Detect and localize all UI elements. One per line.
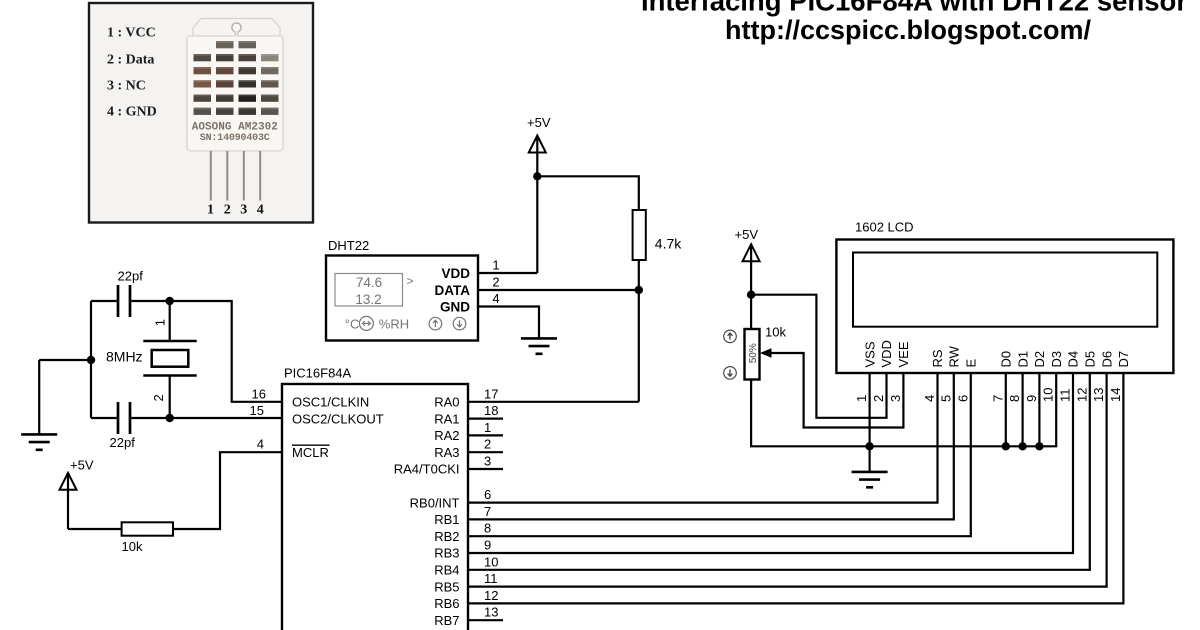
- svg-text:OSC2/CLKOUT: OSC2/CLKOUT: [292, 411, 384, 426]
- svg-text:1 : VCC: 1 : VCC: [107, 26, 156, 41]
- svg-text:22pf: 22pf: [110, 435, 136, 450]
- svg-text:9: 9: [484, 538, 491, 553]
- svg-text:RB4: RB4: [434, 563, 459, 578]
- svg-text:+5V: +5V: [70, 458, 94, 473]
- wire RA3 stub: [468, 451, 503, 453]
- DHT22 down arrow icon: [453, 317, 466, 330]
- svg-text:DHT22: DHT22: [328, 238, 369, 253]
- wire RB3 to LCD D4: [468, 373, 1073, 553]
- capacitor C2 22pf (bottom): [110, 402, 136, 450]
- wire +5V branch to pull-up resistor: [537, 176, 639, 210]
- wire RA0 pin 17 to DATA column: [468, 401, 639, 403]
- wire DATA pin 2: [478, 289, 639, 291]
- svg-text:12: 12: [1074, 388, 1089, 402]
- svg-text:1: 1: [152, 319, 167, 326]
- svg-text:2: 2: [871, 395, 886, 402]
- svg-text:RB0/INT: RB0/INT: [410, 495, 460, 510]
- svg-text:°C: °C: [345, 316, 360, 331]
- wire LCD D2 column to ground rail: [1038, 373, 1040, 446]
- svg-text:RB1: RB1: [434, 512, 459, 527]
- resistor R1 10k (MCLR pull-up): [122, 522, 174, 554]
- potentiometer RV1 10k: [745, 325, 787, 380]
- DHT22 display window: [335, 274, 414, 307]
- wire RB7 stub: [468, 619, 503, 621]
- node junction D2: [1035, 442, 1043, 450]
- +5V supply (DHT22 VDD): [527, 115, 551, 273]
- svg-text:22pf: 22pf: [118, 269, 144, 284]
- svg-text:2: 2: [484, 437, 491, 452]
- photo pin list labels: [107, 26, 157, 120]
- wire RB2 to LCD E: [468, 373, 971, 536]
- svg-text:4 : GND: 4 : GND: [107, 105, 157, 120]
- wire LCD D0 column to ground rail: [1005, 373, 1007, 446]
- svg-text:10: 10: [484, 554, 498, 569]
- svg-text:7: 7: [484, 504, 491, 519]
- svg-text:RB6: RB6: [434, 596, 459, 611]
- svg-text:D1: D1: [1015, 351, 1030, 368]
- node junction D1: [1018, 442, 1026, 450]
- potentiometer up arrow icon: [724, 330, 737, 343]
- svg-text:1602 LCD: 1602 LCD: [855, 220, 914, 235]
- svg-text:2: 2: [224, 203, 231, 218]
- svg-text:1: 1: [207, 203, 214, 218]
- node C junction (bottom cap / crystal): [166, 414, 174, 422]
- svg-text:D7: D7: [1116, 351, 1131, 368]
- DHT22 sensor photo frame: [89, 3, 313, 223]
- svg-text:8MHz: 8MHz: [106, 349, 143, 365]
- svg-text:6: 6: [484, 487, 491, 502]
- svg-text:RA1: RA1: [434, 411, 459, 426]
- wire 4.7k to DATA node and down to RA0: [638, 260, 640, 402]
- svg-text:11: 11: [484, 571, 498, 586]
- svg-text:D4: D4: [1066, 351, 1081, 368]
- svg-text:VDD: VDD: [441, 266, 470, 281]
- svg-text:16: 16: [252, 386, 266, 401]
- svg-text:10: 10: [1041, 388, 1056, 402]
- node junction D0: [1002, 442, 1010, 450]
- svg-text:VEE: VEE: [896, 341, 911, 367]
- node D junction (+5V / 4.7k): [533, 172, 541, 180]
- svg-text:2: 2: [492, 275, 499, 290]
- svg-text:4: 4: [922, 395, 937, 402]
- DHT22 sensor box U2: [326, 238, 478, 341]
- svg-text:RB7: RB7: [434, 613, 459, 628]
- wire RA4 stub: [468, 468, 503, 470]
- svg-text:4: 4: [257, 203, 264, 218]
- svg-text:http://ccspicc.blogspot.com/: http://ccspicc.blogspot.com/: [725, 15, 1092, 45]
- svg-text:MCLR: MCLR: [292, 445, 329, 460]
- svg-text:DATA: DATA: [435, 283, 471, 298]
- pin name MCLR with overbar: [292, 445, 330, 460]
- svg-text:GND: GND: [440, 300, 470, 315]
- svg-text:13.2: 13.2: [355, 292, 381, 307]
- node B junction (left ground): [87, 356, 95, 364]
- wire GND pin 4: [478, 307, 539, 339]
- svg-text:E: E: [964, 359, 979, 368]
- svg-text:RA2: RA2: [434, 428, 459, 443]
- potentiometer down arrow icon: [724, 367, 737, 380]
- svg-text:9: 9: [1024, 395, 1039, 402]
- wire OSC2 net (crystal bottom to PIC pin 15): [91, 417, 282, 419]
- svg-text:RB2: RB2: [434, 529, 459, 544]
- svg-text:RW: RW: [947, 345, 962, 367]
- svg-text:4: 4: [492, 291, 499, 306]
- resistor R2 4.7k (data pull-up): [633, 210, 683, 260]
- svg-text:RA3: RA3: [434, 445, 459, 460]
- node A junction (top cap / crystal): [166, 297, 174, 305]
- svg-text:RB3: RB3: [434, 546, 459, 561]
- wire RB4 to LCD D5: [468, 373, 1090, 570]
- svg-text:D5: D5: [1083, 351, 1098, 368]
- svg-text:RB5: RB5: [434, 579, 459, 594]
- svg-text:17: 17: [484, 386, 498, 401]
- wire LCD VSS pin 1 column: [868, 373, 870, 472]
- svg-text:3: 3: [888, 395, 903, 402]
- svg-text:RS: RS: [930, 349, 945, 367]
- svg-text:D6: D6: [1099, 351, 1114, 368]
- svg-text:1: 1: [854, 395, 869, 402]
- svg-text:1: 1: [492, 257, 499, 272]
- node E junction (DATA / 4.7k / RA0): [635, 286, 643, 294]
- svg-text:2: 2: [151, 394, 166, 401]
- svg-text:D0: D0: [999, 351, 1014, 368]
- svg-text:+5V: +5V: [527, 115, 551, 130]
- wire left vertical between caps: [90, 301, 92, 418]
- svg-text:4: 4: [257, 437, 264, 452]
- wire +5V to resistor and MCLR pin 4: [68, 452, 282, 529]
- svg-text:D2: D2: [1032, 351, 1047, 368]
- svg-text:D3: D3: [1049, 351, 1064, 368]
- svg-text:5: 5: [938, 395, 953, 402]
- svg-text:+5V: +5V: [735, 227, 759, 242]
- svg-text:18: 18: [484, 403, 498, 418]
- svg-text:8: 8: [1007, 395, 1022, 402]
- node G junction (VSS / ground rail): [865, 442, 873, 450]
- sensor body photo: [187, 19, 283, 218]
- +5V supply (MCLR pull-up): [60, 458, 94, 530]
- svg-text:10k: 10k: [122, 539, 143, 554]
- wire RA1 stub: [468, 418, 503, 420]
- svg-text:12: 12: [484, 588, 498, 603]
- svg-text:50%: 50%: [748, 343, 759, 363]
- wire LCD D1 column to ground rail: [1021, 373, 1023, 446]
- crystal X1 8MHz: [106, 301, 197, 418]
- svg-text:6: 6: [955, 395, 970, 402]
- node F junction (+5V / VDD branch): [747, 291, 755, 299]
- wire RB5 to LCD D6: [468, 373, 1107, 587]
- svg-text:OSC1/CLKIN: OSC1/CLKIN: [292, 395, 369, 410]
- svg-text:SN:14090403C: SN:14090403C: [200, 133, 270, 144]
- svg-text:3: 3: [240, 203, 247, 218]
- DHT22 up arrow icon: [429, 317, 442, 330]
- svg-text:RA4/T0CKI: RA4/T0CKI: [394, 462, 460, 477]
- wiper arrow to VEE: [760, 348, 903, 427]
- svg-text:3 : NC: 3 : NC: [107, 79, 146, 94]
- wire pot bottom to ground rail: [751, 373, 1056, 446]
- svg-text:74.6: 74.6: [356, 275, 382, 290]
- svg-text:8: 8: [484, 521, 491, 536]
- LCD module 1602 box: [836, 220, 1173, 373]
- svg-text:2 : Data: 2 : Data: [107, 53, 154, 68]
- svg-text:VDD: VDD: [879, 340, 894, 367]
- capacitor C1 22pf (top): [118, 269, 144, 318]
- svg-text:13: 13: [484, 605, 498, 620]
- wire to ground from node: [39, 360, 91, 434]
- ground (DHT22): [521, 338, 557, 353]
- svg-text:11: 11: [1058, 389, 1073, 403]
- wire RB1 to LCD RW: [468, 373, 954, 519]
- wire OSC1 net (crystal top to PIC pin 16): [91, 301, 282, 402]
- svg-text:%RH: %RH: [379, 316, 409, 331]
- svg-text:1: 1: [484, 420, 491, 435]
- svg-text:4.7k: 4.7k: [655, 235, 682, 251]
- wire +5V to LCD VDD pin 2: [751, 295, 886, 418]
- wire RB6 to LCD D7: [468, 373, 1123, 603]
- ground (LCD): [852, 472, 888, 487]
- svg-text:3: 3: [484, 454, 491, 469]
- svg-text:AOSONG AM2302: AOSONG AM2302: [192, 122, 278, 134]
- svg-text:PIC16F84A: PIC16F84A: [284, 366, 352, 381]
- svg-text:14: 14: [1108, 388, 1123, 402]
- wire VDD pin 1: [478, 272, 537, 274]
- svg-text:10k: 10k: [765, 325, 786, 340]
- svg-text:RA0: RA0: [434, 395, 459, 410]
- svg-text:>: >: [407, 274, 414, 288]
- op: microcontroller U1 PIC16F84A box: [282, 366, 468, 630]
- wire RB0 to LCD RS: [468, 373, 938, 503]
- svg-text:7: 7: [990, 395, 1005, 402]
- wire RA2 stub: [468, 434, 503, 436]
- +5V supply (LCD power): [735, 227, 760, 329]
- DHT22 legend °C/%RH: [345, 316, 409, 331]
- svg-text:13: 13: [1091, 388, 1106, 402]
- ground (crystal circuit): [21, 434, 57, 449]
- svg-text:15: 15: [250, 403, 264, 418]
- svg-text:VSS: VSS: [862, 341, 877, 367]
